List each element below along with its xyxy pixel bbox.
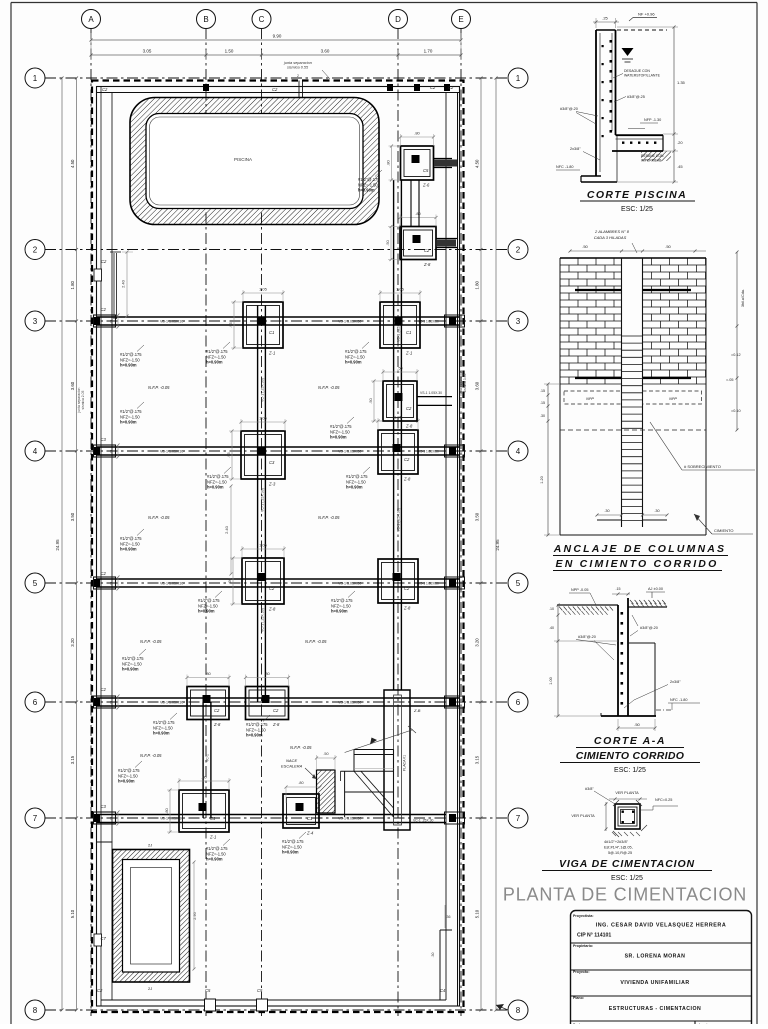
svg-text:3.60: 3.60: [475, 381, 480, 390]
svg-text:3.50: 3.50: [70, 512, 75, 521]
svg-text:h=0.90m: h=0.90m: [120, 547, 137, 552]
svg-text:.80: .80: [298, 781, 303, 785]
grid column line B: [205, 28, 207, 1016]
corte aa ground line left: [557, 604, 618, 606]
svg-text:C2: C2: [406, 406, 412, 411]
svg-text:C7: C7: [101, 936, 107, 941]
grid bubble 4 right: [508, 441, 528, 461]
svg-text:24.95: 24.95: [55, 539, 60, 551]
svg-text:2.40: 2.40: [224, 525, 229, 534]
corte piscina wall section: [595, 30, 597, 176]
pool outer hatched ring: [130, 98, 379, 225]
svg-text:ESCALERA: ESCALERA: [281, 764, 303, 769]
svg-text:#1/2"@.175: #1/2"@.175: [153, 720, 175, 725]
svg-text:#1/2"@.175: #1/2"@.175: [206, 349, 228, 354]
svg-text:h=0.90m: h=0.90m: [346, 485, 363, 490]
grid row line 8: [45, 1009, 509, 1011]
svg-text:NFP -1.30: NFP -1.30: [644, 118, 661, 122]
svg-text:NFZ=-1.50: NFZ=-1.50: [120, 541, 140, 546]
svg-text:3.50: 3.50: [475, 512, 480, 521]
dimension line total 9.90: [91, 39, 461, 41]
svg-text:VIGA DE CIMENTACION: VIGA DE CIMENTACION: [559, 858, 695, 870]
svg-text:#3/8": #3/8": [585, 787, 594, 791]
svg-text:.50: .50: [582, 244, 588, 249]
svg-text:6: 6: [516, 698, 521, 707]
svg-text:N.F.P. -0.05: N.F.P. -0.05: [318, 385, 340, 390]
corte piscina floor slab: [616, 134, 664, 136]
svg-text:8: 8: [516, 1006, 521, 1015]
svg-text:.80: .80: [201, 775, 207, 780]
svg-text:CIMIENTO: CIMIENTO: [714, 528, 733, 533]
svg-text:N.F.P. -0.05: N.F.P. -0.05: [140, 753, 162, 758]
svg-text:N.F.P. -0.05: N.F.P. -0.05: [148, 515, 170, 520]
svg-text:NPP: NPP: [586, 397, 594, 401]
footing Z-4 C1 at (301,811): [283, 794, 319, 828]
anclaje column base dims .30 .30: [597, 514, 622, 516]
svg-text:h=0.90m: h=0.90m: [331, 609, 348, 614]
svg-text:5.10: 5.10: [70, 909, 75, 918]
svg-text:.45: .45: [677, 164, 683, 169]
grid row line 6: [45, 701, 509, 703]
svg-text:ING. CESAR DAVID VELASQUEZ: ING. CESAR DAVID VELASQUEZ HERRERA: [596, 923, 727, 929]
svg-text:D: D: [395, 15, 401, 24]
corte piscina water symbol: [622, 48, 634, 56]
svg-text:#3/8"@.20: #3/8"@.20: [578, 635, 596, 639]
svg-text:N.F.P. -0.05: N.F.P. -0.05: [305, 639, 327, 644]
svg-text:VC-1 (.25X.30): VC-1 (.25X.30): [397, 508, 401, 532]
svg-text:.15: .15: [616, 587, 621, 591]
svg-text:CORTE A-A: CORTE A-A: [594, 735, 666, 747]
svg-text:DESAGUE CON: DESAGUE CON: [624, 69, 650, 73]
svg-text:NACE: NACE: [286, 758, 297, 763]
plan wall inner lines: [97, 92, 460, 94]
beam footing C5 to wall: [433, 158, 452, 160]
footing Z-1 C1 at (400,325): [380, 302, 420, 348]
svg-text:VS-1 1.05X.30: VS-1 1.05X.30: [338, 817, 361, 821]
svg-text:C2: C2: [273, 708, 279, 713]
svg-text:NFC -1.80: NFC -1.80: [556, 165, 574, 169]
title block row fecha/lamina: [694, 1021, 696, 1028]
svg-text:NFZ=-1.50: NFZ=-1.50: [122, 661, 142, 666]
pool basin inner line: [150, 117, 360, 205]
svg-text:h=0.90m: h=0.90m: [207, 485, 224, 490]
svg-text:2 ALAMBRES N° 8: 2 ALAMBRES N° 8: [594, 229, 630, 234]
wall column squares: [203, 84, 209, 91]
svg-text:Z-8: Z-8: [268, 607, 276, 612]
grid bubble 8 left: [25, 1000, 45, 1020]
corte piscina top dimension .25: [593, 21, 619, 23]
svg-text:2.90: 2.90: [193, 912, 197, 919]
svg-text:Z-4: Z-4: [306, 831, 314, 836]
svg-text:#1/2"@.175: #1/2"@.175: [122, 656, 144, 661]
grid bubble 2 left: [25, 240, 45, 260]
svg-text:.80: .80: [205, 671, 211, 676]
corte piscina right dimension chain: [673, 27, 675, 182]
svg-text:VS-1 1.05X.30: VS-1 1.05X.30: [418, 582, 439, 586]
svg-text:Z-1: Z-1: [268, 351, 275, 356]
svg-text:2.40: 2.40: [121, 279, 126, 288]
svg-text:Z-3: Z-3: [268, 482, 276, 487]
svg-text:3: 3: [33, 317, 38, 326]
svg-text:1.00: 1.00: [549, 677, 553, 684]
svg-text:NFZ=-1.50: NFZ=-1.50: [207, 479, 227, 484]
stair dim .80 near footing: [286, 786, 320, 788]
svg-text:E: E: [458, 15, 463, 24]
svg-text:1.50: 1.50: [225, 49, 234, 54]
svg-text:NFZ=-1.50: NFZ=-1.50: [206, 354, 226, 359]
svg-text:.95: .95: [228, 321, 233, 327]
left wall white column marker lower: [94, 934, 102, 946]
corte aa left dimension chain: [557, 605, 559, 716]
svg-text:.36: .36: [446, 915, 451, 919]
grid bubble D: [389, 10, 408, 29]
svg-text:#1/2"@.175: #1/2"@.175: [358, 177, 380, 182]
svg-text:4.50: 4.50: [475, 159, 480, 168]
svg-text:3.60: 3.60: [321, 49, 330, 54]
svg-text:2J: 2J: [148, 843, 152, 848]
svg-text:#1/2"@.175: #1/2"@.175: [206, 846, 228, 851]
grid bubble 5 right: [508, 573, 528, 593]
svg-text:h=0.90m: h=0.90m: [198, 609, 215, 614]
combined footing strip column D rows 6-7: [384, 690, 410, 830]
svg-text:# SOBRECIMIENTO: # SOBRECIMIENTO: [684, 464, 721, 469]
svg-text:5: 5: [33, 579, 38, 588]
svg-text:2: 2: [297, 74, 299, 78]
svg-text:CADA 3 HILADAS: CADA 3 HILADAS: [594, 235, 627, 240]
stair gray tread line: [354, 768, 394, 770]
beam footing C2-extra to wall: [417, 396, 452, 398]
svg-text:2: 2: [33, 245, 38, 254]
seismic joint marker top wall: [298, 81, 300, 98]
svg-text:.10: .10: [549, 607, 554, 611]
grid bubble 1 right: [508, 68, 528, 88]
svg-text:4: 4: [516, 447, 521, 456]
svg-text:h=0.90m: h=0.90m: [120, 363, 137, 368]
svg-text:#1/2"@.175: #1/2"@.175: [118, 768, 140, 773]
corte aa footing right outline: [628, 642, 655, 644]
svg-text:3.60: 3.60: [70, 381, 75, 390]
stair cut diagonals: [354, 771, 394, 817]
svg-text:.50: .50: [368, 397, 373, 403]
corte aa bottom line: [601, 715, 656, 717]
svg-text:#1/2"@.175: #1/2"@.175: [120, 536, 142, 541]
stair flight outline: [393, 750, 395, 818]
svg-text:1.70: 1.70: [424, 49, 433, 54]
beam footing C2 to wall row2: [436, 238, 457, 240]
svg-text:#1/2"@.175: #1/2"@.175: [120, 352, 142, 357]
grid bubble A: [82, 10, 101, 29]
svg-text:PISCINA: PISCINA: [234, 157, 252, 162]
footing Z-3 C3 at (263,455): [241, 431, 285, 479]
svg-text:sismica 2.05: sismica 2.05: [81, 390, 85, 409]
svg-text:.20: .20: [677, 140, 683, 145]
dimension chain left total 24.95: [61, 78, 63, 1010]
left wall white column marker: [94, 269, 102, 281]
page frame: [11, 2, 757, 4]
svg-text:h=0.90m: h=0.90m: [206, 360, 223, 365]
svg-text:3.20: 3.20: [475, 638, 480, 647]
grid row line 3: [45, 320, 509, 322]
svg-text:C2: C2: [430, 85, 436, 90]
wall stub left of cistern: [97, 841, 113, 843]
left wall footing at y=321: [94, 315, 116, 327]
svg-text:1.05: 1.05: [259, 416, 268, 421]
svg-text:1.05: 1.05: [396, 287, 405, 292]
svg-text:C2: C2: [424, 248, 430, 253]
svg-text:Proyectista:: Proyectista:: [573, 914, 594, 918]
svg-text:h=0.90m: h=0.90m: [118, 779, 135, 784]
svg-text:#1/2"@.175: #1/2"@.175: [246, 722, 268, 727]
anclaje wire reinforcement bands: [575, 289, 622, 291]
svg-text:1.35: 1.35: [677, 80, 686, 85]
svg-text:.30: .30: [604, 509, 609, 513]
anclaje brick wall courses: [560, 257, 622, 259]
svg-text:C2: C2: [101, 259, 107, 264]
svg-text:CIMIENTO CORRIDO: CIMIENTO CORRIDO: [576, 750, 684, 762]
vertical beam column B rows 6-7: [202, 702, 204, 818]
svg-text:IMPERMEAB.: IMPERMEAB.: [641, 159, 662, 163]
viga ground hatch below: [612, 832, 616, 836]
svg-text:24.95: 24.95: [495, 539, 500, 551]
grid row line 5: [45, 582, 509, 584]
grid bubble B: [197, 10, 216, 29]
footing Z-8 C2 at (263,581): [242, 558, 284, 604]
svg-text:#1/2"@.175: #1/2"@.175: [331, 598, 353, 603]
svg-text:SR. LORENA MORAN: SR. LORENA MORAN: [625, 954, 686, 960]
grid row line 7: [45, 817, 509, 819]
svg-text:junta separacion: junta separacion: [283, 61, 312, 65]
plan outer boundary dashed: [92, 81, 464, 1013]
left wall footing at y=702: [94, 696, 116, 708]
svg-text:#3/8"@.20: #3/8"@.20: [560, 107, 578, 111]
svg-text:1.80: 1.80: [475, 280, 480, 289]
svg-text:Z-8: Z-8: [213, 722, 221, 727]
foundation beam row 4: [97, 446, 459, 448]
svg-text:.50: .50: [385, 239, 390, 245]
grid row line 1: [45, 77, 509, 79]
svg-text:NFZ=-1.50: NFZ=-1.50: [120, 414, 140, 419]
svg-text:A: A: [88, 15, 94, 24]
svg-text:1.05: 1.05: [394, 415, 403, 420]
grid bubble 6 left: [25, 692, 45, 712]
svg-text:h=0.90m: h=0.90m: [120, 420, 137, 425]
svg-text:N.F.P. -0.05: N.F.P. -0.05: [140, 639, 162, 644]
svg-text:h=0.90m: h=0.90m: [206, 857, 223, 862]
vertical beam column D: [393, 180, 395, 690]
svg-text:.50: .50: [665, 244, 671, 249]
corte aa ground line right with fill hatch: [628, 606, 667, 608]
svg-text:#1/2"@.175: #1/2"@.175: [198, 598, 220, 603]
svg-text:Z-8: Z-8: [272, 722, 280, 727]
svg-text:Z-8: Z-8: [403, 606, 411, 611]
svg-text:5@.10,R@.25: 5@.10,R@.25: [608, 851, 632, 855]
svg-text:NF +0.96: NF +0.96: [638, 12, 655, 17]
svg-text:C2: C2: [448, 85, 454, 90]
svg-text:NFZ=-1.50: NFZ=-1.50: [282, 844, 302, 849]
svg-text:h=0.90m: h=0.90m: [282, 850, 299, 855]
svg-text:6: 6: [33, 698, 38, 707]
svg-text:Z-8: Z-8: [423, 262, 431, 267]
corte aa wall section: [617, 605, 619, 716]
svg-text:VS-1 1.05X.30: VS-1 1.05X.30: [338, 582, 361, 586]
svg-text:=.05: =.05: [726, 378, 734, 382]
svg-text:NPP -0.05: NPP -0.05: [571, 588, 588, 592]
svg-text:ESC: 1/25: ESC: 1/25: [621, 206, 653, 213]
svg-text:C5: C5: [205, 988, 211, 993]
svg-text:.80: .80: [164, 807, 169, 813]
svg-text:=0.12: =0.12: [731, 353, 741, 357]
stair direction arrow: [345, 730, 413, 753]
anclaje central column: [621, 258, 623, 527]
svg-text:3: 3: [516, 317, 521, 326]
svg-text:.50: .50: [397, 366, 403, 371]
svg-text:VS-1 1.05X.30: VS-1 1.05X.30: [160, 450, 183, 454]
anclaje NPP dashed zones: [564, 391, 622, 404]
svg-text:NFZ=-1.50: NFZ=-1.50: [345, 354, 365, 359]
svg-text:C2: C2: [102, 87, 108, 92]
svg-text:C5: C5: [423, 168, 429, 173]
svg-text:1: 1: [516, 74, 521, 83]
svg-text:RESANE CON: RESANE CON: [641, 154, 664, 158]
svg-text:.15: .15: [540, 401, 545, 405]
svg-text:5.10: 5.10: [475, 909, 480, 918]
svg-text:VS-1 1.05X.30: VS-1 1.05X.30: [160, 817, 183, 821]
svg-text:.30: .30: [654, 509, 659, 513]
anclaje top dimension .50 .50: [570, 250, 706, 252]
svg-text:NFZ=-1.50: NFZ=-1.50: [246, 727, 266, 732]
svg-text:3hil.a/Cda.: 3hil.a/Cda.: [741, 289, 745, 307]
svg-text:NFC -1.80: NFC -1.80: [670, 698, 688, 702]
svg-text:sismica 0.55: sismica 0.55: [287, 66, 309, 70]
svg-text:4#1/2"+2#3/8": 4#1/2"+2#3/8": [604, 840, 629, 844]
stair upper landing beam: [354, 749, 394, 751]
grid bubble E: [452, 10, 471, 29]
svg-text:#1/2"@.175: #1/2"@.175: [346, 474, 368, 479]
svg-text:C1: C1: [210, 816, 215, 821]
plan wall outer solid: [97, 87, 460, 1007]
svg-text:1.20: 1.20: [540, 476, 544, 483]
svg-text:Z-8: Z-8: [403, 477, 411, 482]
svg-text:PLANTA DE CIMENTACION: PLANTA DE CIMENTACION: [503, 885, 747, 905]
svg-text:VER PLANTA: VER PLANTA: [571, 814, 595, 818]
dimension chain left per-row: [76, 78, 78, 1010]
svg-text:sismica 3.05: sismica 3.05: [463, 373, 467, 392]
svg-text:#1/2"@.175: #1/2"@.175: [282, 839, 304, 844]
svg-text:C3: C3: [269, 460, 275, 465]
svg-text:C1: C1: [269, 330, 274, 335]
stair dim .50: [317, 757, 336, 759]
svg-text:VS-1 1.05X.30: VS-1 1.05X.30: [418, 320, 439, 324]
grid bubble 1 left: [25, 68, 45, 88]
svg-text:VS-1 1.05X.30: VS-1 1.05X.30: [338, 701, 361, 705]
bottom-right wall notch: [439, 930, 441, 1000]
svg-text:Plano:: Plano:: [573, 996, 584, 1000]
svg-text:3.20: 3.20: [70, 638, 75, 647]
svg-text:7: 7: [33, 814, 38, 823]
svg-text:VS-1 1.05X.30: VS-1 1.05X.30: [420, 391, 442, 395]
svg-text:.15: .15: [540, 389, 545, 393]
svg-text:.80: .80: [386, 159, 391, 165]
svg-text:Z-B: Z-B: [413, 708, 421, 713]
svg-text:#3/8"@.20: #3/8"@.20: [640, 626, 658, 630]
svg-text:VC-1 (.25X.30): VC-1 (.25X.30): [261, 608, 265, 632]
svg-text:1.05: 1.05: [259, 287, 268, 292]
svg-text:VER PLANTA: VER PLANTA: [615, 791, 639, 795]
anclaje cimiento outline: [559, 384, 561, 535]
svg-text:C4: C4: [440, 988, 446, 993]
svg-text:ESTRUCTURAS - CIMENTACION: ESTRUCTURAS - CIMENTACION: [609, 1006, 702, 1012]
svg-text:NPP: NPP: [669, 397, 677, 401]
svg-text:3.05: 3.05: [143, 49, 152, 54]
svg-text:C: C: [259, 15, 265, 24]
svg-text:C2: C2: [101, 307, 107, 312]
svg-text:VS-1 1.05X.30: VS-1 1.05X.30: [160, 701, 183, 705]
footing Z-8 C2 at (418,243): [400, 227, 436, 260]
svg-text:1.05: 1.05: [259, 543, 268, 548]
footing Z-6 C5 at (417,163): [401, 146, 434, 180]
svg-text:C2: C2: [214, 708, 220, 713]
svg-text:Est:#1/4",1@.05,: Est:#1/4",1@.05,: [604, 846, 633, 850]
svg-text:.30: .30: [431, 953, 435, 958]
svg-text:NFZ=-1.50: NFZ=-1.50: [120, 357, 140, 362]
svg-text:.80: .80: [264, 671, 270, 676]
viga corner hatch ticks: [613, 800, 619, 806]
svg-text:3.15: 3.15: [475, 755, 480, 764]
svg-text:NFZ=-1.50: NFZ=-1.50: [331, 603, 351, 608]
svg-text:ESC: 1/25: ESC: 1/25: [611, 875, 643, 882]
svg-text:#3/8"@.25: #3/8"@.25: [627, 95, 645, 99]
dimension line segments top: [91, 54, 461, 56]
svg-text:VC-1 (.25X.30): VC-1 (.25X.30): [261, 378, 265, 402]
svg-text:PLACA #1: PLACA #1: [403, 755, 407, 771]
dim bracket 2.40 upper left: [126, 252, 128, 316]
corte aa bottom dim .50: [618, 727, 655, 729]
svg-text:h=0.90m: h=0.90m: [122, 667, 139, 672]
footing Z-8 C2 at (398,581): [378, 559, 418, 603]
svg-text:C1: C1: [406, 330, 411, 335]
svg-text:CORTE PISCINA: CORTE PISCINA: [587, 189, 687, 201]
svg-text:9.90: 9.90: [273, 34, 282, 39]
cistern inner line: [131, 868, 172, 965]
cistern hatched ring: [113, 850, 190, 983]
foundation beam row 7: [97, 814, 446, 816]
viga square section: [615, 804, 640, 829]
grid bubble C: [252, 10, 271, 29]
corte piscina hatched subgrade: [641, 151, 671, 161]
grid bubble 4 left: [25, 441, 45, 461]
svg-text:5: 5: [516, 579, 521, 588]
svg-text:1.80: 1.80: [70, 280, 75, 289]
dimension chain right per-row: [480, 78, 482, 1010]
svg-text:AJ ±0.00: AJ ±0.00: [648, 587, 663, 591]
grid bubble 7 right: [508, 808, 528, 828]
anclaje right dimension chain: [736, 252, 738, 430]
svg-text:Z-1: Z-1: [405, 351, 412, 356]
svg-text:C5: C5: [257, 988, 263, 993]
anclaje left dimension chain: [547, 384, 549, 535]
svg-text:4: 4: [33, 447, 38, 456]
svg-text:NFZ=-1.50: NFZ=-1.50: [346, 479, 366, 484]
svg-text:.30: .30: [540, 414, 545, 418]
footing Z-1 C1 at (204,811): [179, 790, 229, 832]
svg-text:VS-1 1.05X.30: VS-1 1.05X.30: [160, 320, 183, 324]
svg-text:.80: .80: [414, 131, 420, 136]
svg-text:3.15: 3.15: [70, 755, 75, 764]
svg-text:C2: C2: [272, 87, 278, 92]
svg-text:C2: C2: [404, 586, 410, 591]
grid bubble 5 left: [25, 573, 45, 593]
svg-text:h=0.90m: h=0.90m: [153, 731, 170, 736]
